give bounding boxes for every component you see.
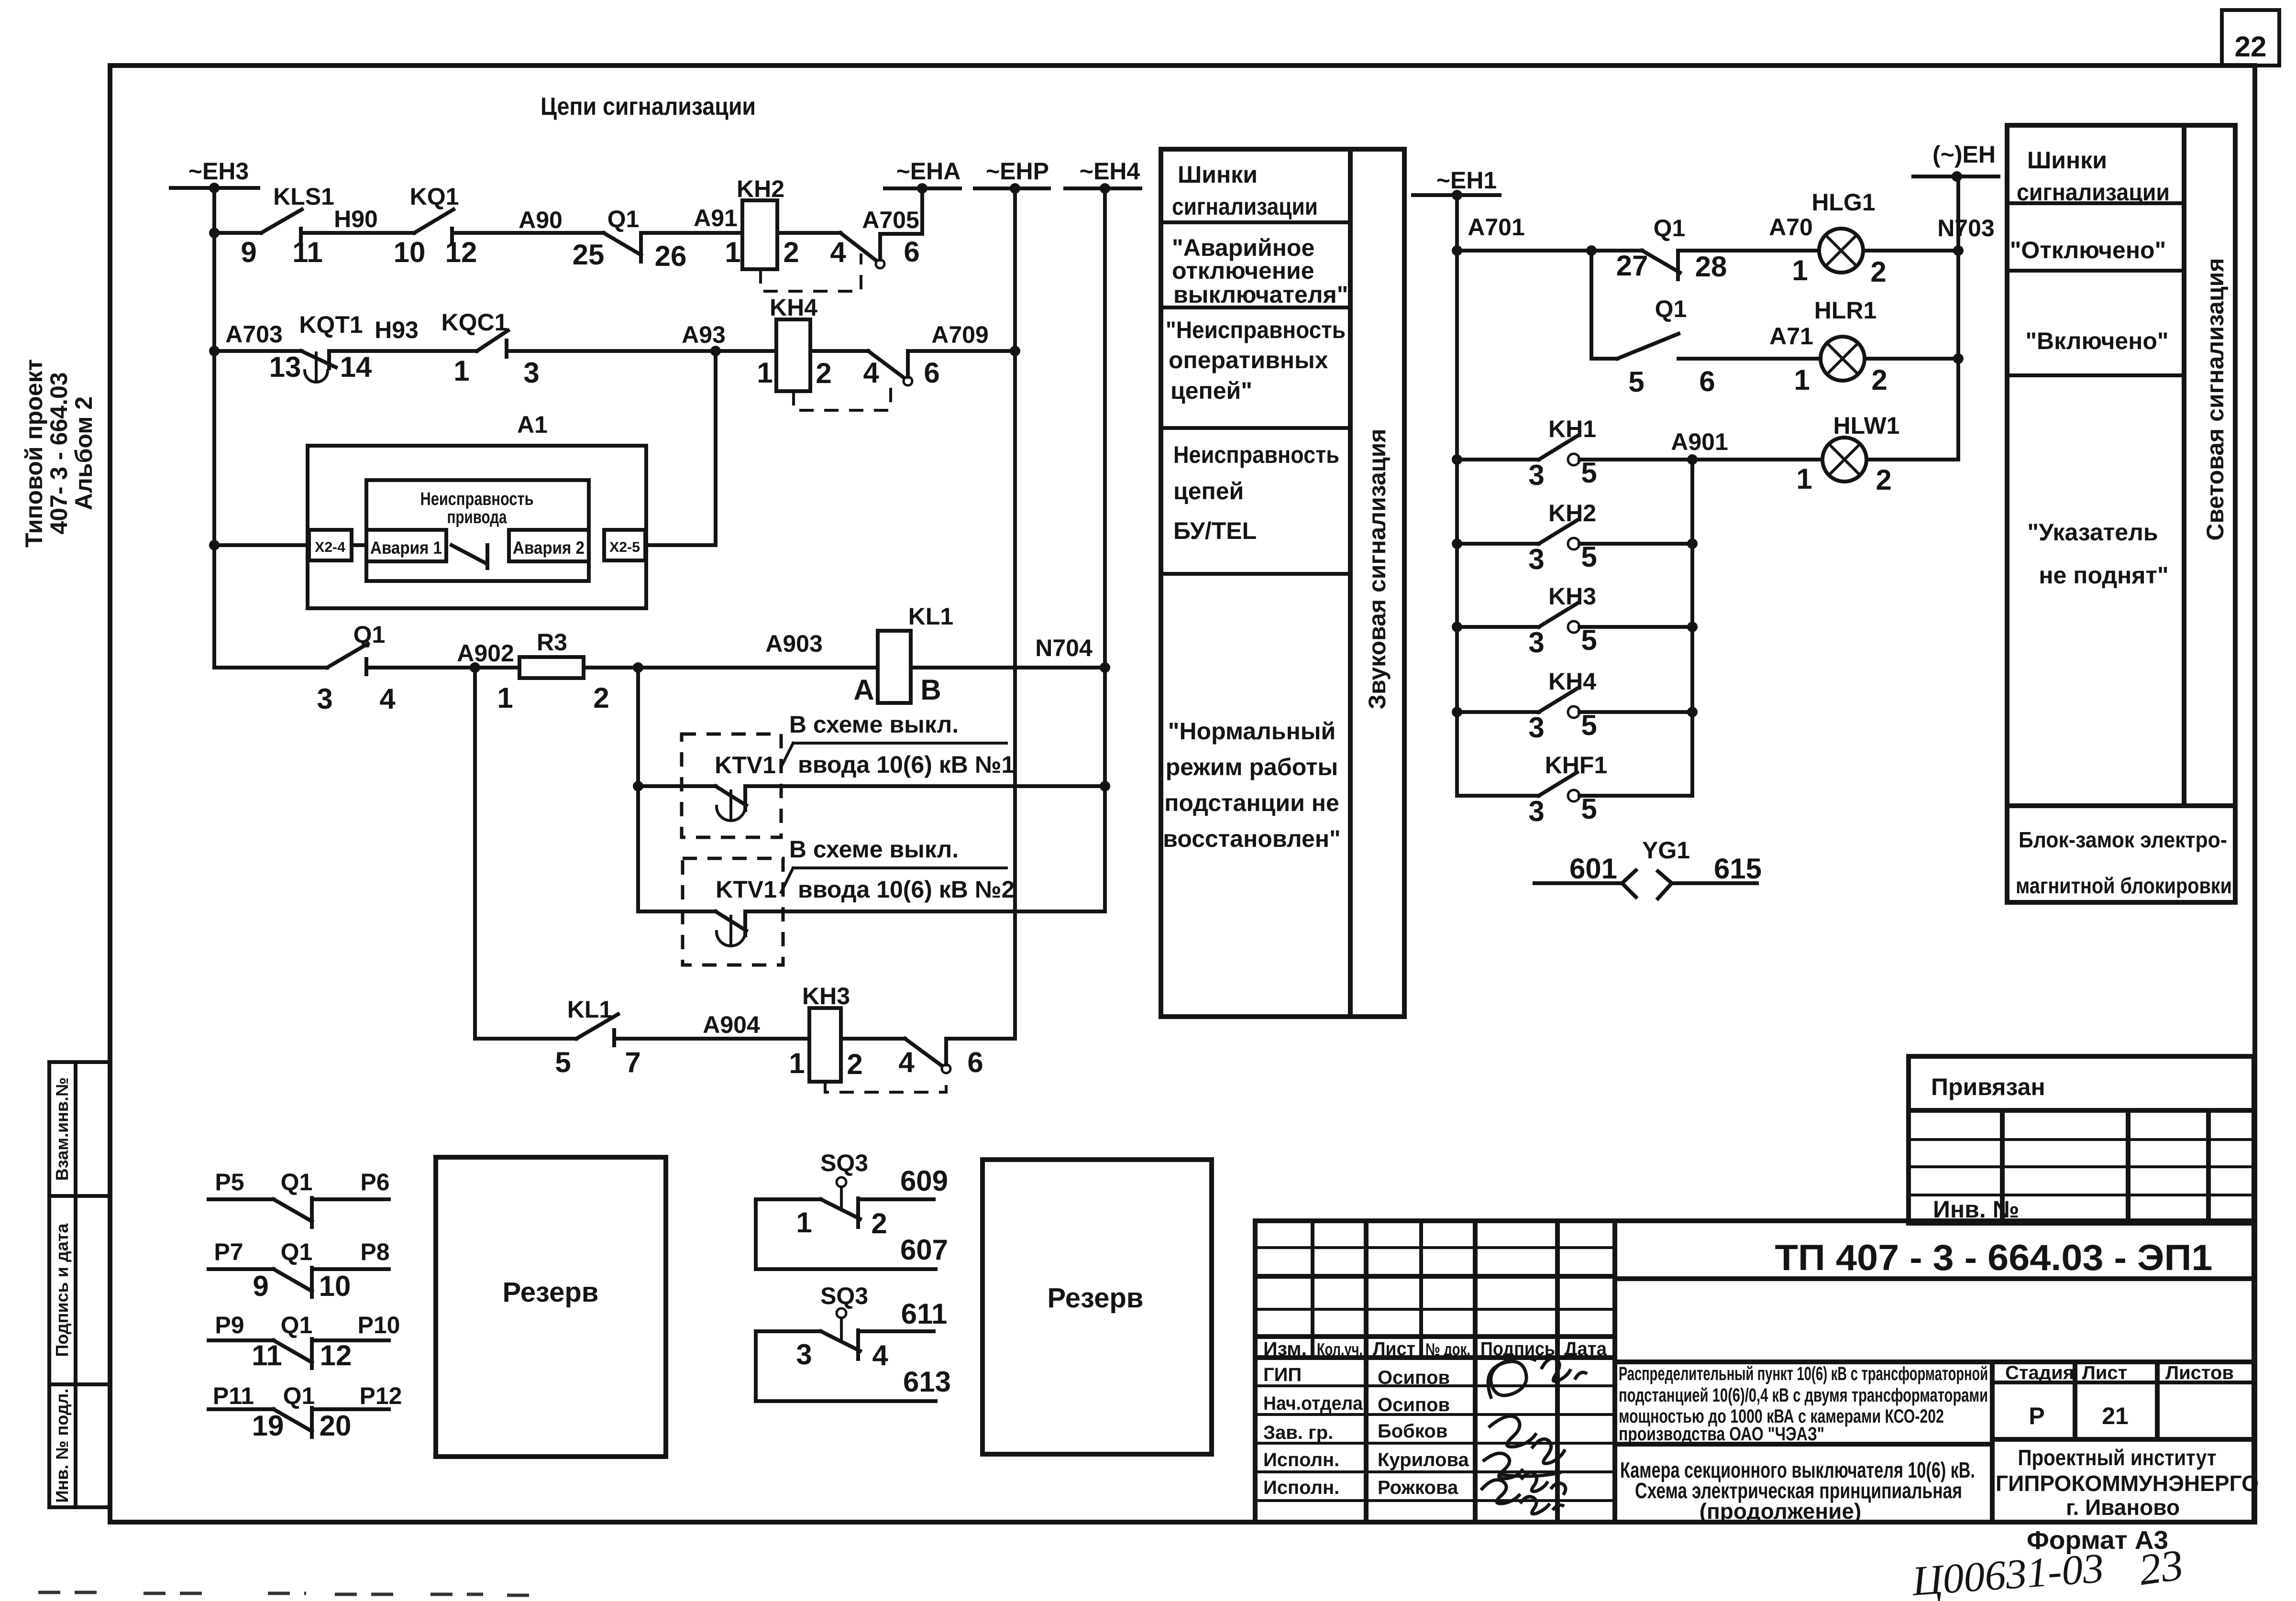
- wire ~EHP riser: [1010, 188, 1020, 1039]
- svg-text:3: 3: [523, 357, 539, 389]
- title block Стадия/Лист/Листов: [1992, 1362, 2254, 1439]
- label Блок-замок электромагнитной блокировки: [2016, 827, 2232, 898]
- svg-text:5: 5: [1581, 624, 1597, 656]
- svg-text:12: 12: [445, 236, 477, 268]
- title block left section grid: [1255, 1221, 1615, 1522]
- svg-text:P10: P10: [358, 1312, 400, 1338]
- label Звуковая сигнализация (vertical): [1364, 428, 1391, 709]
- svg-text:1: 1: [725, 236, 740, 268]
- svg-text:KTV1: KTV1: [715, 752, 776, 779]
- wire A90: [452, 207, 604, 233]
- contact KQC1 (1-3): [442, 309, 540, 389]
- wire KH4 pin2 to contact 4: [810, 349, 868, 353]
- switch SQ3 (3-4, 611/613): [756, 1283, 951, 1401]
- svg-text:1: 1: [497, 682, 513, 714]
- svg-text:~ЕН3: ~ЕН3: [188, 158, 249, 185]
- svg-text:P11: P11: [213, 1382, 254, 1409]
- svg-text:KQT1: KQT1: [299, 311, 363, 338]
- wire: left feeder vertical from ~EH3: [209, 188, 220, 668]
- contact Q1 (5-6): [1591, 296, 1715, 398]
- svg-text:Изм.: Изм.: [1263, 1338, 1307, 1360]
- bus ~EH3: [171, 158, 258, 193]
- bus ~EH4: [1065, 158, 1140, 194]
- svg-text:27: 27: [1616, 250, 1648, 282]
- svg-text:X2-5: X2-5: [609, 539, 640, 555]
- svg-text:сигнализации: сигнализации: [2017, 179, 2170, 206]
- contact Авария (inside A1): [452, 545, 487, 568]
- svg-text:Звуковая сигнализация: Звуковая сигнализация: [1364, 428, 1391, 709]
- svg-text:"Неисправность: "Неисправность: [1166, 317, 1346, 343]
- svg-text:Взам.инв.№: Взам.инв.№: [52, 1077, 72, 1181]
- svg-text:609: 609: [900, 1165, 948, 1197]
- left margin table Взам.инв.№ / Подпись и дата / Инв.№ подл.: [49, 1062, 110, 1507]
- svg-text:P5: P5: [215, 1169, 244, 1195]
- wire A70: [1678, 214, 1819, 251]
- contact KTV1 no.1 (time delay, dashed box): [638, 734, 781, 837]
- svg-text:Лист: Лист: [1373, 1338, 1415, 1360]
- svg-text:Лист: Лист: [2082, 1362, 2128, 1383]
- connector YG1 (601-615): [1534, 837, 1762, 899]
- svg-text:цепей": цепей": [1170, 377, 1252, 404]
- node A701: [1457, 214, 1642, 256]
- label Формат А3: [2027, 1526, 2168, 1555]
- svg-text:KL1: KL1: [567, 996, 612, 1023]
- svg-text:19: 19: [252, 1410, 284, 1442]
- svg-text:цепей: цепей: [1173, 478, 1244, 504]
- svg-text:9: 9: [253, 1270, 268, 1302]
- svg-text:SQ3: SQ3: [820, 1150, 868, 1176]
- svg-text:~ЕН4: ~ЕН4: [1080, 158, 1140, 185]
- contact KH3 (3-5): [1457, 583, 1692, 658]
- node A703: [225, 321, 283, 348]
- svg-text:407- 3 - 664.03: 407- 3 - 664.03: [45, 372, 72, 534]
- box Резерв no.1: [436, 1157, 666, 1457]
- wire A71: [1678, 323, 1821, 359]
- svg-text:Световая сигнализация: Световая сигнализация: [2202, 258, 2229, 540]
- svg-text:4: 4: [379, 683, 396, 715]
- label "Нормальный режим работы подстанции не восстановлен": [1163, 718, 1341, 852]
- svg-text:Распределительный пункт 10(6): Распределительный пункт 10(6) кВ с транс…: [1619, 1363, 1988, 1384]
- svg-text:KLS1: KLS1: [273, 183, 334, 210]
- wire KTV1 no.2 to ~EH4 riser end: [745, 910, 1105, 913]
- wire branch from A903 down: [633, 668, 643, 911]
- box Резерв no.2: [982, 1160, 1212, 1454]
- svg-text:28: 28: [1695, 251, 1727, 283]
- svg-text:A901: A901: [1671, 428, 1728, 455]
- svg-text:1: 1: [453, 355, 469, 387]
- contact KL1 (5-7): [475, 996, 641, 1078]
- label "Указатель не поднят": [2027, 519, 2168, 589]
- node A901: [1579, 428, 1822, 465]
- svg-text:A93: A93: [682, 321, 726, 348]
- wire H90: [301, 206, 414, 233]
- svg-text:KH3: KH3: [802, 983, 850, 1009]
- svg-text:ГИПРОКОММУНЭНЕРГО: ГИПРОКОММУНЭНЕРГО: [1996, 1471, 2259, 1496]
- title block frame: [1255, 1221, 2254, 1522]
- contact KQ1 (10-12): [394, 183, 477, 268]
- svg-text:Q1: Q1: [281, 1169, 313, 1195]
- contact KH2 (4-6): [830, 233, 919, 268]
- svg-text:Альбом 2: Альбом 2: [70, 396, 97, 510]
- svg-text:A701: A701: [1468, 214, 1525, 241]
- label Шинки сигнализации (right): [2017, 147, 2170, 206]
- contact KQT1 (13-14) with time delay: [214, 311, 372, 383]
- node A93: [507, 321, 776, 356]
- svg-text:11: 11: [252, 1339, 282, 1371]
- label Световая сигнализация (vertical): [2202, 258, 2229, 540]
- svg-text:H90: H90: [334, 206, 378, 232]
- wire X2-5 up to node A93: [645, 351, 716, 545]
- contact Q1 (P5-P6): [209, 1169, 390, 1227]
- svg-text:магнитной блокировки: магнитной блокировки: [2016, 873, 2232, 898]
- svg-text:2: 2: [783, 236, 799, 268]
- svg-text:Авария 1: Авария 1: [370, 538, 442, 558]
- svg-text:Дата: Дата: [1564, 1338, 1607, 1360]
- svg-text:615: 615: [1714, 853, 1762, 885]
- svg-text:YG1: YG1: [1642, 837, 1690, 864]
- relay coil KH3: [789, 983, 862, 1082]
- wire KH group right vertical: [1687, 460, 1698, 796]
- contact KH2 (3-5): [1457, 500, 1692, 575]
- svg-text:Зав. гр.: Зав. гр.: [1263, 1422, 1333, 1443]
- contact Q1 (P9-P10, 11-12): [209, 1312, 400, 1371]
- signatures (handwritten squiggles): [1481, 1358, 1587, 1514]
- svg-text:22: 22: [2235, 31, 2267, 63]
- mechanical linkage KH3 (dashed): [825, 1075, 946, 1092]
- terminal X2-5: [604, 530, 645, 560]
- svg-text:12: 12: [320, 1339, 352, 1371]
- svg-text:N703: N703: [1937, 215, 1995, 241]
- svg-text:A90: A90: [519, 207, 563, 233]
- title block drawing name: [1615, 1444, 1992, 1524]
- wire A904: [614, 1011, 809, 1039]
- svg-text:613: 613: [903, 1366, 951, 1398]
- title block document number ТП 407-3-664.03-ЭП1: [1615, 1238, 2254, 1279]
- svg-text:4: 4: [863, 357, 879, 389]
- svg-text:Шинки: Шинки: [2027, 147, 2107, 174]
- svg-text:2: 2: [871, 1207, 887, 1239]
- svg-text:A709: A709: [931, 321, 989, 348]
- contact Q1 (3-4): [214, 621, 396, 715]
- svg-text:26: 26: [655, 240, 687, 272]
- node A902: [366, 640, 519, 673]
- svg-text:A91: A91: [694, 205, 738, 231]
- svg-text:3: 3: [1528, 626, 1544, 658]
- svg-text:Резерв: Резерв: [1048, 1283, 1144, 1314]
- svg-text:A904: A904: [703, 1011, 760, 1038]
- svg-text:25: 25: [573, 239, 605, 271]
- svg-text:21: 21: [2102, 1403, 2129, 1429]
- lamp HLG1: [1792, 189, 1886, 288]
- svg-text:23: 23: [2136, 1540, 2186, 1594]
- bus (~)EH: [1913, 141, 1998, 182]
- svg-text:6: 6: [924, 357, 939, 389]
- svg-text:3: 3: [1528, 543, 1544, 575]
- label "Включено": [2025, 328, 2168, 354]
- bottom-left scan artifact dashed line: [38, 1592, 543, 1595]
- contact Q1 (27-28): [1616, 215, 1727, 283]
- wire ~EH4 riser: [1100, 188, 1110, 911]
- svg-text:607: 607: [900, 1234, 948, 1266]
- label "Неисправность оперативных цепей": [1166, 317, 1346, 404]
- svg-text:ГИП: ГИП: [1263, 1364, 1302, 1385]
- svg-text:10: 10: [394, 236, 426, 268]
- svg-text:Кол.уч.: Кол.уч.: [1317, 1339, 1363, 1359]
- svg-text:привода: привода: [447, 507, 508, 527]
- svg-text:№ док.: № док.: [1425, 1339, 1470, 1359]
- svg-text:P6: P6: [360, 1169, 389, 1195]
- svg-text:A705: A705: [862, 207, 919, 233]
- svg-text:отключение: отключение: [1172, 257, 1314, 284]
- svg-text:В схеме выкл.: В схеме выкл.: [789, 836, 959, 863]
- wire A709 to ~EHP riser: [908, 321, 1015, 377]
- svg-text:P12: P12: [360, 1382, 402, 1409]
- svg-text:9: 9: [241, 236, 256, 268]
- node A903: [584, 630, 878, 673]
- svg-text:6: 6: [1699, 365, 1715, 397]
- svg-text:Типовой проект: Типовой проект: [21, 359, 47, 548]
- svg-text:6: 6: [904, 236, 919, 268]
- handwritten inventory number Ц00631-03 23: [1910, 1540, 2186, 1601]
- callout label В схеме выкл. ввода 10(6) кВ №2: [781, 836, 1015, 903]
- title block institute name: [1996, 1445, 2259, 1520]
- svg-text:2: 2: [1871, 364, 1887, 396]
- bus ~EHA: [885, 158, 960, 194]
- wire KH2 pin2 to contact 4: [777, 231, 840, 235]
- contact KLS1 (9-11): [214, 183, 334, 268]
- svg-text:H93: H93: [375, 317, 419, 343]
- svg-text:Q1: Q1: [281, 1312, 313, 1338]
- left margin rotated stamp: Типовой проект 407-3-664.03 Альбом 2: [21, 359, 97, 548]
- svg-text:г. Иваново: г. Иваново: [2066, 1495, 2180, 1520]
- label "Отключено": [2010, 237, 2166, 263]
- svg-text:HLG1: HLG1: [1811, 189, 1875, 216]
- svg-text:X2-4: X2-4: [315, 539, 345, 555]
- svg-text:восстановлен": восстановлен": [1163, 825, 1341, 852]
- svg-text:13: 13: [269, 351, 301, 383]
- wire KH3 contact 6 to ~EHP riser end: [946, 1039, 1015, 1064]
- svg-text:сигнализации: сигнализации: [1172, 193, 1318, 220]
- svg-text:4: 4: [830, 236, 846, 268]
- wire A705 up to ~EHA: [862, 188, 922, 260]
- relay coil KL1: [853, 603, 953, 706]
- svg-text:KH4: KH4: [770, 294, 817, 321]
- terminal X2-4: [309, 530, 352, 560]
- svg-text:"Нормальный: "Нормальный: [1168, 718, 1336, 745]
- label "Аварийное отключение выключателя": [1172, 234, 1348, 308]
- svg-text:(~)ЕН: (~)ЕН: [1932, 141, 1996, 168]
- svg-text:ТП 407 - 3 - 664.03 - ЭП1: ТП 407 - 3 - 664.03 - ЭП1: [1775, 1238, 2213, 1278]
- box Авария 1: [366, 530, 446, 561]
- svg-text:Бобков: Бобков: [1378, 1421, 1447, 1442]
- contact Q1 (P11-P12, 19-20): [209, 1382, 402, 1442]
- svg-text:Проектный институт: Проектный институт: [2018, 1445, 2217, 1470]
- svg-text:7: 7: [625, 1046, 640, 1078]
- svg-text:1: 1: [757, 357, 773, 389]
- svg-text:Р: Р: [2029, 1403, 2044, 1429]
- svg-text:ввода 10(6) кВ №1: ввода 10(6) кВ №1: [798, 751, 1015, 778]
- node N703: [1863, 215, 1995, 256]
- svg-text:A903: A903: [765, 630, 823, 657]
- contact KH4 (4-6): [863, 351, 939, 389]
- wire branch from A902 down: [473, 668, 477, 1039]
- mechanical linkage KH4 (dashed): [794, 385, 891, 410]
- svg-text:В схеме выкл.: В схеме выкл.: [789, 711, 959, 738]
- svg-text:Исполн.: Исполн.: [1263, 1449, 1339, 1470]
- svg-text:14: 14: [340, 351, 372, 383]
- svg-text:~ЕНР: ~ЕНР: [986, 158, 1049, 185]
- contact KH4 (3-5): [1457, 668, 1692, 744]
- svg-text:A: A: [853, 674, 874, 706]
- svg-text:2: 2: [847, 1048, 862, 1080]
- svg-text:Рожкова: Рожкова: [1378, 1477, 1458, 1498]
- svg-text:A70: A70: [1769, 214, 1813, 241]
- svg-text:KQ1: KQ1: [410, 183, 459, 210]
- svg-text:20: 20: [320, 1410, 352, 1442]
- bus ~EH1: [1413, 167, 1500, 200]
- svg-text:подстанции не: подстанции не: [1164, 790, 1339, 816]
- label Шинки сигнализации (middle): [1172, 161, 1318, 220]
- svg-text:B: B: [920, 674, 941, 706]
- svg-text:N704: N704: [1035, 635, 1093, 661]
- title block staff rows: [1263, 1364, 1469, 1498]
- box Авария 2: [509, 530, 589, 561]
- svg-text:Привязан: Привязан: [1931, 1074, 2045, 1100]
- svg-text:3: 3: [1528, 795, 1544, 827]
- svg-text:611: 611: [901, 1298, 948, 1330]
- svg-text:Резерв: Резерв: [503, 1277, 599, 1308]
- svg-text:3: 3: [317, 683, 332, 715]
- svg-text:БУ/TEL: БУ/TEL: [1173, 517, 1257, 544]
- contact KHF1 (3-5): [1457, 752, 1692, 827]
- contact KTV1 no.2 (time delay, dashed box): [638, 858, 783, 965]
- wire HLW1 to (~)EH riser: [1866, 458, 1958, 461]
- contact Q1 (P7-P8, 9-10): [209, 1239, 390, 1302]
- block Привязан: [1909, 1056, 2254, 1110]
- heading Цепи сигнализации: [541, 93, 756, 121]
- svg-text:ввода 10(6) кВ №2: ввода 10(6) кВ №2: [798, 876, 1015, 903]
- svg-text:Инв. №: Инв. №: [1933, 1196, 2019, 1223]
- svg-text:Неисправность: Неисправность: [420, 489, 534, 509]
- svg-text:A71: A71: [1769, 323, 1813, 350]
- svg-text:4: 4: [872, 1339, 888, 1371]
- svg-text:3: 3: [796, 1338, 812, 1371]
- svg-text:KQC1: KQC1: [442, 309, 508, 336]
- middle table Шинки сигнализации (sound signalling): [1161, 149, 1404, 1017]
- svg-text:Исполн.: Исполн.: [1263, 1477, 1339, 1498]
- label Неисправность цепей БУ/TEL: [1173, 441, 1339, 544]
- wire Q1 column branch: [1590, 251, 1593, 359]
- svg-text:5: 5: [555, 1046, 571, 1078]
- svg-text:2: 2: [593, 682, 609, 714]
- svg-text:(продолжение): (продолжение): [1700, 1499, 1862, 1524]
- resistor R3: [497, 629, 609, 714]
- svg-text:1: 1: [796, 1206, 812, 1239]
- svg-text:Осипов: Осипов: [1378, 1367, 1450, 1388]
- svg-text:Q1: Q1: [1655, 296, 1687, 322]
- svg-text:R3: R3: [537, 629, 567, 656]
- svg-text:Шинки: Шинки: [1178, 161, 1258, 188]
- wire (~)EH riser: [1956, 176, 1960, 460]
- svg-text:Неисправность: Неисправность: [1173, 441, 1339, 468]
- title block header labels: [1263, 1338, 1607, 1360]
- svg-text:Курилова: Курилова: [1378, 1449, 1469, 1470]
- sheet number box 22: [2222, 10, 2279, 66]
- relay coil KH2: [725, 175, 799, 269]
- svg-text:10: 10: [319, 1270, 351, 1302]
- wire KTV1 no.1 to ~EH4 riser: [745, 784, 1105, 788]
- lamp HLR1: [1794, 297, 1887, 396]
- relay coil KH4: [757, 294, 831, 391]
- svg-text:подстанцией 10(6)/0,4 кВ с дву: подстанцией 10(6)/0,4 кВ с двумя трансфо…: [1619, 1385, 1988, 1406]
- svg-text:KTV1: KTV1: [716, 876, 777, 903]
- callout label В схеме выкл. ввода 10(6) кВ №1: [781, 711, 1015, 778]
- svg-text:KL1: KL1: [908, 603, 953, 630]
- svg-text:P7: P7: [214, 1239, 243, 1265]
- svg-text:1: 1: [1794, 364, 1810, 396]
- title block description box: [1615, 1362, 2254, 1522]
- block A1: [308, 411, 646, 608]
- svg-text:режим работы: режим работы: [1166, 754, 1338, 780]
- svg-text:оперативных: оперативных: [1169, 347, 1328, 373]
- svg-text:1: 1: [1796, 463, 1812, 495]
- svg-text:HLR1: HLR1: [1814, 297, 1877, 324]
- wire N704: [911, 635, 1105, 668]
- svg-text:"Указатель: "Указатель: [2027, 519, 2158, 546]
- svg-text:P8: P8: [360, 1239, 389, 1265]
- svg-text:KH2: KH2: [737, 175, 784, 202]
- contact KH1 (3-5): [1457, 416, 1597, 491]
- svg-text:SQ3: SQ3: [820, 1283, 868, 1309]
- svg-text:"Включено": "Включено": [2025, 328, 2168, 354]
- svg-text:3: 3: [1528, 459, 1544, 491]
- table under Привязан with Инв.№: [1909, 1110, 2254, 1223]
- svg-text:4: 4: [898, 1046, 915, 1078]
- svg-text:не поднят": не поднят": [2039, 562, 2168, 589]
- svg-text:Блок-замок электро-: Блок-замок электро-: [2019, 827, 2227, 852]
- wire X2-4 to Авария 1: [352, 543, 366, 547]
- contact Q1 (25-26): [573, 206, 687, 272]
- bus ~EHP: [975, 158, 1049, 194]
- wire HLR1 to riser: [1865, 353, 1964, 364]
- svg-text:3: 3: [1528, 712, 1544, 744]
- svg-text:Осипов: Осипов: [1378, 1394, 1450, 1415]
- mechanical linkage KH2 (dashed): [761, 253, 861, 291]
- wire to A1 terminal X2-4: [214, 543, 309, 547]
- svg-text:1: 1: [1792, 254, 1808, 286]
- svg-text:Q1: Q1: [281, 1239, 313, 1265]
- wire ~EH1 feeder vertical: [1452, 195, 1462, 796]
- svg-text:~ЕНА: ~ЕНА: [896, 158, 961, 185]
- svg-text:~ЕН1: ~ЕН1: [1436, 167, 1497, 194]
- svg-text:2: 2: [816, 357, 831, 389]
- svg-text:5: 5: [1581, 793, 1597, 825]
- svg-text:Q1: Q1: [283, 1382, 315, 1409]
- svg-text:5: 5: [1628, 366, 1644, 398]
- svg-text:1: 1: [789, 1047, 805, 1079]
- svg-text:Авария 2: Авария 2: [513, 538, 585, 558]
- svg-text:Q1: Q1: [607, 206, 640, 232]
- svg-text:Инв. № подл.: Инв. № подл.: [52, 1389, 72, 1503]
- lamp HLW1: [1796, 412, 1899, 496]
- svg-text:выключателя": выключателя": [1173, 281, 1348, 308]
- svg-text:Листов: Листов: [2165, 1362, 2234, 1383]
- wire KH3 pin2 to contact 4: [841, 1037, 905, 1041]
- svg-text:A703: A703: [225, 321, 283, 348]
- svg-text:11: 11: [292, 236, 322, 268]
- svg-text:P9: P9: [215, 1312, 244, 1338]
- svg-text:2: 2: [1876, 464, 1891, 496]
